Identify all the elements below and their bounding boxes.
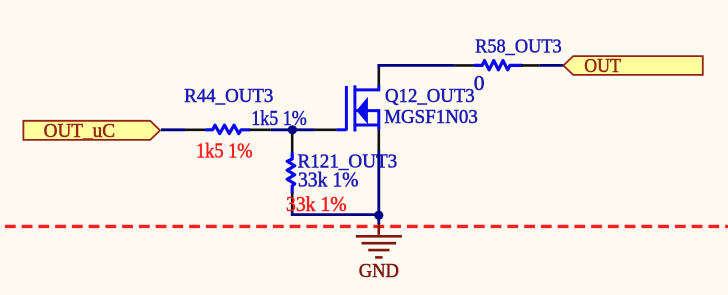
node junction B — [374, 211, 383, 220]
svg-text:R58_OUT3: R58_OUT3 — [475, 35, 562, 57]
svg-text:1k5 1%: 1k5 1% — [196, 139, 253, 163]
ground GND — [356, 224, 402, 257]
resistor R44 pin 2 — [250, 129, 271, 132]
resistor R44 pin 1 — [185, 129, 207, 132]
wire: R44 to junction to Q12 gate — [271, 128, 315, 131]
svg-text:R44_OUT3: R44_OUT3 — [184, 85, 273, 107]
wire: OUT_uC to R44 — [161, 128, 185, 131]
svg-text:OUT: OUT — [584, 55, 621, 77]
svg-text:Q12_OUT3: Q12_OUT3 — [385, 85, 475, 107]
resistor R58 pin 1 — [455, 64, 475, 67]
svg-text:0: 0 — [474, 71, 485, 95]
port OUT_uC — [23, 120, 160, 142]
wire: R58 to OUT port — [540, 64, 564, 67]
resistor R58 pin 2 — [522, 64, 540, 67]
blanket (red dashed rule) — [0, 225, 728, 228]
svg-text:MGSF1N03: MGSF1N03 — [384, 106, 478, 128]
resistor R44 body — [207, 125, 250, 133]
pin: Q12 gate pin — [315, 129, 337, 132]
transistor Q12 MOSFET symbol — [336, 85, 378, 131]
pin: Q12 drain pin — [377, 68, 380, 85]
wire: source down to ground junction — [377, 151, 380, 225]
svg-text:1k5 1%: 1k5 1% — [251, 106, 307, 130]
pin: R121 pin 2 — [291, 193, 294, 212]
pin: R121 pin 1 — [291, 134, 294, 154]
resistor R121 body — [287, 154, 295, 193]
svg-text:33k 1%: 33k 1% — [298, 168, 359, 192]
wire: R121 bottom to ground junction — [292, 212, 379, 215]
svg-text:OUT_uC: OUT_uC — [44, 120, 115, 142]
node junction A — [288, 125, 297, 134]
resistor R58 body — [475, 61, 522, 70]
pin: Q12 source pin — [377, 130, 380, 151]
port OUT — [563, 55, 702, 77]
wire: drain up and right to R58 — [379, 65, 455, 68]
svg-text:33k 1%: 33k 1% — [286, 192, 347, 216]
svg-text:GND: GND — [359, 260, 399, 282]
